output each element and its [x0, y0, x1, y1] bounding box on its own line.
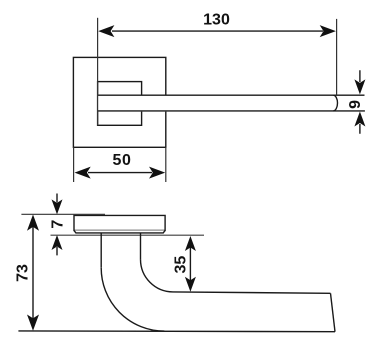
dim 7 arrow shafts — [56, 194, 58, 256]
arrowhead dim7 top (down) — [52, 199, 63, 214]
svg-text:9: 9 — [347, 100, 364, 109]
extension line left of dim 130 / inner square left edge — [97, 18, 99, 126]
dimension line 130 — [112, 30, 323, 32]
svg-text:35: 35 — [173, 256, 190, 274]
arrowhead dim9 bottom (up) — [354, 112, 365, 127]
neck outer arc — [101, 267, 164, 331]
arrowhead dim50 right — [149, 167, 165, 179]
lever bar bottom edge — [98, 110, 365, 112]
arrowhead dim35 top (up) — [185, 236, 196, 251]
lever bar fill (top view) — [98, 95, 339, 112]
rosette outer square (top view) — [73, 57, 165, 147]
neck left edge (side view) — [100, 233, 102, 267]
arrowhead dim35 bottom (down) — [185, 277, 196, 292]
svg-text:130: 130 — [203, 12, 230, 29]
arrowhead dim73 top (up) — [27, 215, 39, 231]
dim 35 line — [189, 247, 191, 281]
wall line — [51, 234, 205, 236]
arrowhead dim9 top (down) — [354, 79, 365, 94]
lever end slant cut — [331, 293, 336, 331]
arrowhead dim7 bottom (up) — [52, 235, 63, 250]
extension lines of dim 50 — [74, 147, 166, 182]
dim 73 line — [32, 227, 34, 319]
svg-text:7: 7 — [49, 220, 66, 229]
rosette side view bottom lip — [74, 230, 165, 233]
dim 9 arrow shafts — [359, 70, 361, 134]
neck right edge (side view) — [140, 233, 142, 259]
lever top edge (side view) — [173, 292, 331, 293]
lever bar rounded tip — [333, 95, 337, 111]
dimension line 50 — [88, 172, 152, 174]
svg-text:73: 73 — [15, 264, 32, 282]
neck inner square (top view) — [98, 82, 142, 126]
arrowhead dim130 left — [98, 25, 114, 37]
lever bottom edge and 73 extension line — [18, 330, 335, 333]
extension line top of side view (73 / 7 reference) — [21, 213, 105, 215]
neck inner arc — [141, 259, 174, 292]
svg-text:50: 50 — [113, 152, 132, 169]
arrowhead dim50 left — [75, 167, 91, 179]
rosette side view body — [74, 215, 165, 230]
lever bar top edge — [98, 94, 365, 96]
arrowhead dim130 right — [320, 25, 336, 37]
extension line right of dim 130 — [336, 19, 338, 95]
arrowhead dim73 bottom (down) — [27, 315, 39, 331]
